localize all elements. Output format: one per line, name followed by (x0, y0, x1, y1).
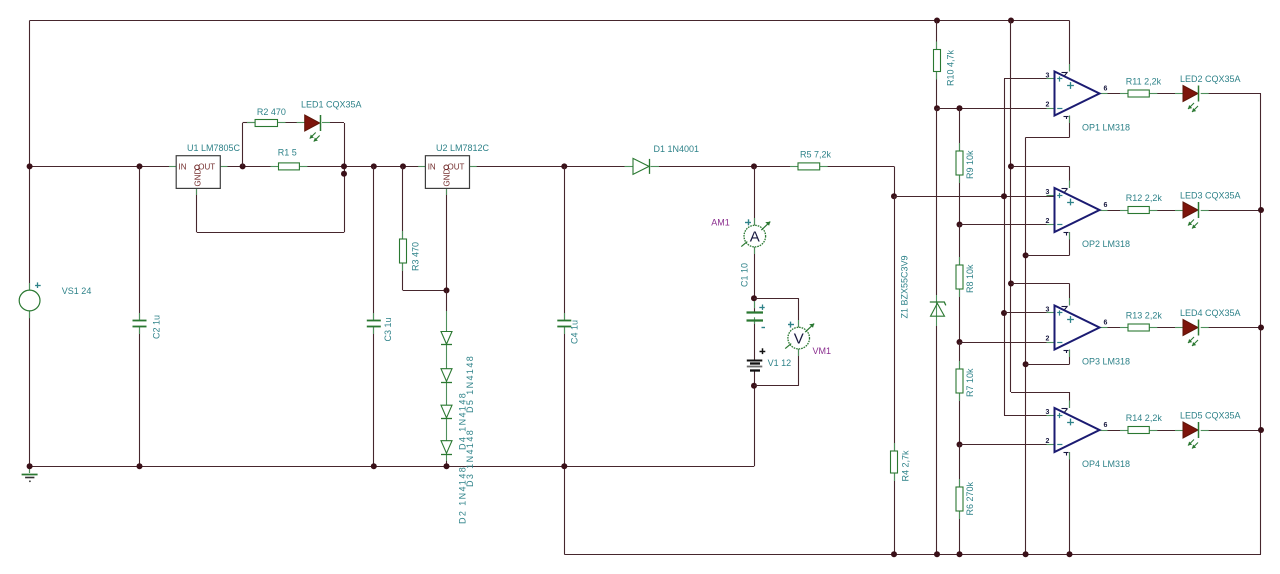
svg-text:R5 7,2k: R5 7,2k (800, 150, 832, 160)
node R5 ladder corner junction (891, 193, 897, 199)
node C2 at ground rail (137, 463, 143, 469)
svg-text:3: 3 (1046, 307, 1050, 314)
wire VM1 branch top (754, 298, 799, 300)
svg-text:LED3 CQX35A: LED3 CQX35A (1180, 191, 1241, 201)
resistor R13 (1128, 324, 1149, 331)
wire OP4 inverting input line (960, 444, 1055, 446)
node OP3 non-inverting branch (1001, 310, 1007, 316)
svg-text:R8 10k: R8 10k (965, 264, 975, 293)
svg-text:VS1 24: VS1 24 (62, 286, 92, 296)
resistor R9 (956, 151, 963, 175)
op-amp OP3 LM318 (1055, 306, 1100, 350)
node OP2 V- junction (1023, 252, 1029, 258)
wire LED branch vertical (344, 123, 346, 232)
svg-text:R10 4,7k: R10 4,7k (946, 49, 956, 86)
svg-text:D2 1N4148: D2 1N4148 (458, 466, 468, 524)
svg-text:D1 1N4001: D1 1N4001 (654, 144, 700, 154)
resistor R7 (956, 369, 963, 393)
resistor R8 (956, 265, 963, 289)
node OP3 V- junction (1023, 361, 1029, 367)
svg-text:OP4 LM318: OP4 LM318 (1082, 459, 1130, 469)
regulator U2 LM7812C (425, 156, 469, 189)
svg-text:OP2 LM318: OP2 LM318 (1082, 239, 1130, 249)
svg-text:V: V (794, 331, 804, 348)
resistor R1 (279, 163, 300, 170)
voltage source VS1 (19, 290, 40, 311)
wire zener branch (936, 108, 938, 295)
resistor R3 (400, 239, 407, 263)
wire R2 branch up (242, 123, 244, 166)
wire U2 GND down (446, 188, 448, 290)
wire LED2 to return rail (1201, 93, 1261, 95)
wire OP1 inverting input line (937, 108, 1055, 110)
wire LED3 to return rail (1201, 210, 1261, 212)
svg-text:R12 2,2k: R12 2,2k (1126, 193, 1163, 203)
diode D3 (441, 405, 452, 418)
capacitor C4 (557, 320, 571, 322)
wire OP1 non-inverting input line (1004, 78, 1055, 80)
node C2 junction main line (137, 163, 143, 169)
node R4 at lower rail (891, 551, 897, 557)
svg-text:3: 3 (1046, 409, 1050, 416)
wire C3 branch (373, 166, 375, 320)
wire OP2 V- hook (1069, 232, 1071, 255)
svg-text:2: 2 (1046, 438, 1050, 445)
wire lower rail to op-amp V- (564, 466, 566, 554)
svg-text:OP3 LM318: OP3 LM318 (1082, 357, 1130, 367)
wire U2 out to D1 (470, 166, 634, 168)
node LED4 return rail junction (1258, 325, 1264, 331)
wire LED1 to down corner (322, 122, 344, 124)
node R10 R9 divider junction (934, 105, 940, 111)
wire R10 from supply rail (936, 21, 938, 50)
svg-text:3: 3 (1046, 189, 1050, 196)
svg-text:6: 6 (1104, 422, 1108, 429)
node tap R8-R7 junction (957, 339, 963, 345)
LED LED3 (1183, 202, 1198, 218)
node AM1 branch junction main line (751, 163, 757, 169)
node OP3 V+ branch (1008, 281, 1014, 287)
diode D5 (441, 332, 452, 345)
svg-text:3: 3 (1046, 73, 1050, 80)
svg-text:GND: GND (443, 169, 452, 187)
svg-text:R9 10k: R9 10k (965, 150, 975, 179)
node LED3 return rail junction (1258, 207, 1264, 213)
svg-text:A: A (750, 229, 760, 246)
node ladder top of R9 (957, 105, 963, 111)
wire R13 to LED4 (1149, 327, 1183, 329)
ground symbol (29, 466, 31, 473)
LED LED4 (1183, 320, 1198, 336)
wire U1 GND loop (196, 188, 198, 232)
wire OP4 non-inverting input line (1004, 415, 1055, 417)
wire R5 to ladder corner (820, 166, 894, 168)
wire C1 to V1 battery (754, 321, 756, 361)
wire OP3 V- hook (1069, 350, 1071, 365)
node LED branch lower junction (341, 171, 347, 177)
wire OP3 output to R13 (1100, 327, 1129, 329)
op-amp OP2 LM318 (1055, 188, 1100, 232)
wire LED5 to return rail (1201, 430, 1261, 432)
wire bottom ground rail (30, 466, 754, 468)
wire OP4 V+ hook (1011, 392, 1070, 394)
wire R4 branch (894, 196, 896, 451)
wire OP1 V+ pin from supply rail (1069, 21, 1071, 72)
node VS1 ground rail junction (27, 463, 33, 469)
wire LED4 to return rail (1201, 327, 1261, 329)
regulator U1 LM7805C (176, 156, 220, 189)
pin leads (green) (169, 166, 176, 168)
wire R14 to LED5 (1149, 430, 1183, 432)
node LED5 return rail junction (1258, 427, 1264, 433)
resistor R10 (934, 50, 941, 72)
node C4 junction main line (561, 163, 567, 169)
svg-text:Z1 BZX55C3V9: Z1 BZX55C3V9 (899, 255, 909, 318)
ammeter AM1 (744, 225, 766, 247)
resistor R2 (255, 120, 277, 127)
svg-text:LED1 CQX35A: LED1 CQX35A (301, 100, 362, 110)
svg-text:V1 12: V1 12 (768, 358, 792, 368)
LED LED5 (1183, 422, 1198, 438)
node C3 junction main line (371, 163, 377, 169)
node R2 branch junction (240, 163, 246, 169)
svg-text:R13 2,2k: R13 2,2k (1126, 311, 1163, 321)
wire OP2 output to R12 (1100, 210, 1129, 212)
resistor R4 (891, 451, 898, 473)
wire V- chain vertical (1025, 137, 1027, 554)
diode D4 (441, 369, 452, 382)
node diode chain top junction (444, 287, 450, 293)
diode D2 (441, 441, 452, 454)
wire R7 ladder (959, 342, 961, 369)
capacitor C3 (367, 320, 381, 322)
wire OP2 V+ hook (1011, 166, 1070, 168)
node zener at lower rail (934, 551, 940, 557)
wire R8 ladder (959, 225, 961, 266)
wire R2 to LED1 (278, 122, 305, 124)
wire VS1 bottom to ground rail (29, 311, 31, 466)
wire OP4 output to R14 (1100, 430, 1129, 432)
resistor R11 (1128, 90, 1149, 97)
svg-text:2: 2 (1046, 218, 1050, 225)
svg-text:6: 6 (1104, 202, 1108, 209)
LED LED2 (1183, 86, 1198, 102)
svg-text:R11 2,2k: R11 2,2k (1126, 77, 1162, 87)
op-amp OP4 LM318 (1055, 408, 1100, 452)
svg-text:VM1: VM1 (813, 346, 832, 356)
wire R6 ladder (959, 445, 961, 488)
svg-text:LED4 CQX35A: LED4 CQX35A (1180, 308, 1241, 318)
wire main +24V horizontal line (30, 166, 177, 168)
node LED branch at main line (341, 163, 347, 169)
op-amp OP1 LM318 (1055, 72, 1100, 116)
node VM1 top branch junction (751, 295, 757, 301)
wire OP4 V- pin to lower rail (1069, 452, 1071, 554)
wire OP3 V+ hook (1011, 283, 1070, 285)
wire R3 branch (402, 166, 404, 239)
node C4 at ground rail (561, 463, 567, 469)
svg-text:C1 10: C1 10 (739, 263, 749, 287)
wire D1 to R5 (651, 166, 799, 168)
node R3 junction main line (400, 163, 406, 169)
wire right LED return rail (1260, 94, 1262, 555)
node VM1 bottom branch junction (751, 383, 757, 389)
resistor R14 (1128, 427, 1149, 434)
svg-text:R14 2,2k: R14 2,2k (1126, 413, 1163, 423)
wire OP3 inverting input line (960, 342, 1055, 344)
battery V1 (747, 360, 763, 362)
node tap R9-R8 junction (957, 222, 963, 228)
svg-text:2: 2 (1046, 102, 1050, 109)
svg-text:R3 470: R3 470 (411, 242, 421, 271)
zener diode Z1 (931, 303, 945, 316)
wire diode chain (446, 290, 448, 311)
wire VM1 branch bottom (798, 349, 800, 386)
svg-text:GND: GND (193, 169, 202, 187)
svg-text:6: 6 (1104, 320, 1108, 327)
node R6 at lower rail (957, 551, 963, 557)
node V- chain at lower rail (1023, 551, 1029, 557)
node C3 at ground rail (371, 463, 377, 469)
node OP2 V+ branch (1008, 163, 1014, 169)
wire V+ distribution vertical (1010, 21, 1012, 393)
wire C4 branch (564, 166, 566, 320)
capacitor C1 (747, 311, 764, 313)
node R10 top at supply rail (934, 18, 940, 24)
svg-text:R6 270k: R6 270k (965, 481, 975, 515)
wire C2 branch (139, 166, 141, 320)
svg-text:R1 5: R1 5 (278, 148, 297, 158)
wire R11 to LED2 (1149, 93, 1183, 95)
wire U1 out to R1 and U2 (220, 166, 278, 168)
svg-text:6: 6 (1104, 86, 1108, 93)
svg-text:C2 1u: C2 1u (152, 315, 162, 339)
svg-text:R7 10k: R7 10k (965, 368, 975, 397)
node OP1 non-inverting branch (1001, 193, 1007, 199)
wire top supply rail (30, 20, 1070, 22)
node V+ distribution at supply rail (1008, 18, 1014, 24)
wire main line down to AM1 (754, 166, 756, 225)
node diode chain at ground rail (444, 463, 450, 469)
svg-text:LED2 CQX35A: LED2 CQX35A (1180, 74, 1241, 84)
svg-text:U2 LM7812C: U2 LM7812C (436, 143, 490, 153)
wire measurement line to op-amps (894, 196, 1055, 198)
diode D1 (633, 158, 649, 174)
svg-text:C4 1u: C4 1u (570, 320, 580, 344)
svg-text:OP1 LM318: OP1 LM318 (1082, 123, 1130, 133)
wire R12 to LED3 (1149, 210, 1183, 212)
wire OP3 non-inverting input line (1004, 312, 1055, 314)
wire R9 ladder (959, 108, 961, 151)
wire AM1 to C1 (754, 247, 756, 313)
capacitor C2 (133, 320, 147, 322)
LED LED1 (305, 115, 320, 131)
wire OP2 inverting input line (960, 224, 1055, 226)
svg-text:C3 1u: C3 1u (383, 317, 393, 341)
svg-text:2: 2 (1046, 336, 1050, 343)
resistor R6 (956, 487, 963, 511)
svg-text:IN: IN (428, 163, 436, 172)
svg-text:U1 LM7805C: U1 LM7805C (187, 143, 241, 153)
node main line at left vertical (27, 163, 33, 169)
node tap R7-R6 junction (957, 442, 963, 448)
wire left vertical from top rail to VS1 (29, 21, 31, 291)
voltmeter VM1 (788, 327, 810, 349)
svg-text:R4 2,7k: R4 2,7k (900, 450, 910, 482)
svg-text:LED5 CQX35A: LED5 CQX35A (1180, 411, 1241, 421)
node OP4 V- at lower rail (1067, 551, 1073, 557)
wire V1 bottom (754, 371, 756, 466)
svg-text:AM1: AM1 (711, 217, 730, 227)
wire OP1 output to R11 (1100, 93, 1129, 95)
wire OP1 V- hook (1069, 116, 1071, 138)
svg-text:R2 470: R2 470 (257, 107, 286, 117)
resistor R12 (1128, 207, 1149, 214)
wire non-inverting distribution vertical (1004, 79, 1006, 416)
svg-text:IN: IN (179, 163, 187, 172)
resistor R5 (798, 163, 820, 170)
